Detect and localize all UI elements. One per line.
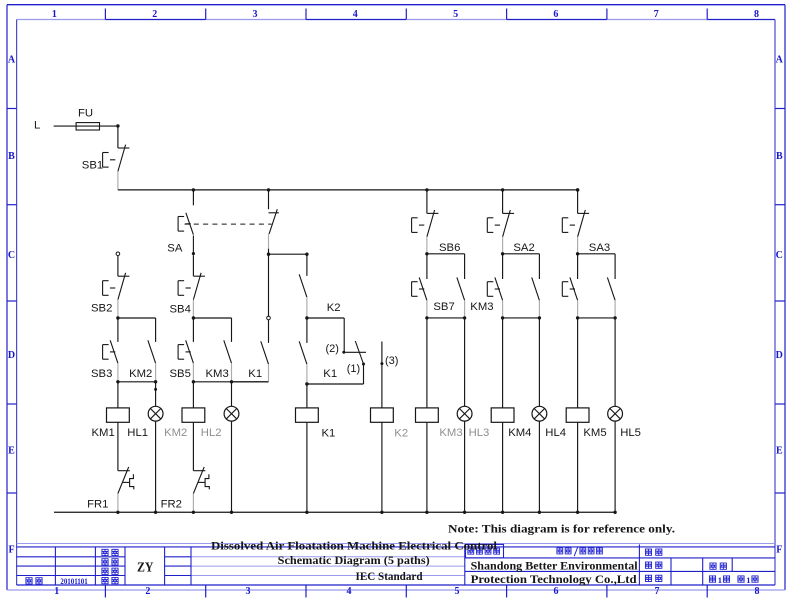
svg-text:KM5: KM5 (583, 427, 606, 439)
svg-text:5: 5 (453, 9, 458, 20)
svg-text:FU: FU (78, 108, 93, 120)
selector switch SA pole 2 NC (269, 209, 279, 254)
svg-text:7: 7 (654, 9, 659, 20)
svg-text:K2: K2 (327, 302, 341, 314)
junction bus col E (267, 188, 270, 191)
svg-text:B: B (776, 151, 783, 162)
svg-text:Schematic Diagram (5 paths): Schematic Diagram (5 paths) (278, 553, 430, 567)
junction bus col SA2 (501, 188, 504, 191)
wire B to HL1 (155, 382, 157, 407)
svg-text:Note: This diagram is for refe: Note: This diagram is for reference only… (448, 522, 675, 536)
junction F top (305, 253, 308, 256)
wire C to SA (192, 190, 194, 205)
label ban-ci/xiu-gai-ci revision (557, 548, 563, 554)
wire (3) branch (381, 342, 383, 408)
label ri-qi date (26, 578, 32, 584)
label she-ji design (102, 549, 108, 555)
svg-text:Dissolved Air Floatation Machi: Dissolved Air Floatation Machine Electri… (211, 538, 498, 552)
wire KM4 coil to bus (502, 422, 504, 512)
coil KM3 (416, 408, 439, 422)
svg-text:SB5: SB5 (170, 368, 191, 380)
pushbutton SB1 NC contact (118, 145, 129, 190)
wire SA3 top (577, 190, 579, 214)
junction bottom bus col B (154, 511, 157, 514)
svg-text:K1: K1 (323, 368, 337, 380)
svg-text:KM3: KM3 (470, 301, 493, 313)
junction group right (463, 316, 466, 319)
wire HL1 to bottom bus (155, 421, 157, 512)
junction SA3 mid (576, 252, 579, 255)
wire (1) down (363, 364, 365, 384)
svg-text:5: 5 (455, 586, 460, 597)
SB2 actuator (103, 281, 116, 296)
left NO actuator under SA2 (487, 282, 500, 297)
wire fuse to node (100, 125, 118, 127)
junction FU output (116, 124, 119, 127)
wire right down (464, 254, 466, 279)
contact SA2 NC (503, 210, 514, 252)
coil KM1 (107, 408, 130, 422)
label wen-jian-bian-hao document number (468, 548, 474, 554)
junction B row3 (154, 380, 157, 383)
SB4 actuator (178, 281, 191, 296)
lamp HL3 (457, 406, 472, 421)
coil KM5 (566, 408, 589, 422)
svg-text:SA3: SA3 (589, 242, 610, 254)
svg-text:KM2: KM2 (129, 368, 152, 380)
wire to lamp (464, 318, 466, 406)
svg-text:1: 1 (746, 575, 750, 585)
junction B extra (154, 388, 157, 391)
wire to coil (426, 318, 428, 408)
label ban-ben version (645, 562, 651, 568)
junction bus col C (192, 188, 195, 191)
svg-text:6: 6 (553, 9, 558, 20)
left NO actuator under SB6 (412, 282, 425, 297)
wire to lamp (538, 318, 540, 406)
svg-text:C: C (776, 250, 783, 261)
wire top bus (118, 189, 578, 191)
junction bottom bus col A (116, 511, 119, 514)
coil K1 (296, 408, 319, 422)
svg-text:KM4: KM4 (508, 427, 531, 439)
SB6 actuator (412, 218, 425, 233)
svg-text:D: D (8, 350, 15, 361)
svg-text:SA2: SA2 (513, 242, 534, 254)
junction F row3 (305, 382, 308, 385)
svg-text:K1: K1 (248, 368, 262, 380)
wire F to K1 contact 2 (306, 318, 308, 343)
lamp HL1 (148, 406, 163, 421)
svg-text:KM3: KM3 (206, 368, 229, 380)
contact KM3 NO (224, 340, 232, 382)
svg-text:(1): (1) (347, 363, 360, 375)
svg-text:E: E (8, 446, 15, 457)
wire left down (502, 254, 504, 279)
SA2 actuator (487, 218, 500, 233)
wire E corner to D (232, 381, 269, 383)
svg-text:7: 7 (655, 586, 660, 597)
svg-text:20101101: 20101101 (60, 577, 87, 586)
pushbutton SB2 NC contact (118, 273, 129, 318)
node ring col A (116, 252, 120, 256)
wire branch C-D (193, 317, 231, 319)
junction bottom bus col L (538, 511, 541, 514)
wire HL5 to bus (614, 421, 616, 512)
label page 1 of 1 (709, 576, 715, 582)
SB3 actuator (103, 345, 116, 360)
node dot col C (192, 252, 195, 255)
svg-text:3: 3 (246, 586, 251, 597)
junction bus col SA3 (576, 188, 579, 191)
junction bottom bus col J (463, 511, 466, 514)
svg-text:HL3: HL3 (469, 427, 490, 439)
svg-text:4: 4 (353, 9, 358, 20)
wire left down (426, 254, 428, 279)
junction bottom bus col I (425, 511, 428, 514)
selector switch SA pole 1 (186, 213, 194, 252)
wire F to K1 coil (306, 384, 308, 408)
svg-text:HL1: HL1 (127, 427, 148, 439)
wire A to KM1 coil (117, 382, 119, 408)
zone numbers top (52, 9, 759, 20)
wire branch to right contact (427, 253, 465, 255)
thermal overload FR2 (193, 467, 209, 512)
svg-text:8: 8 (755, 586, 760, 597)
wire group bottom (503, 317, 540, 319)
junction D row3 (230, 380, 233, 383)
junction group left (425, 316, 428, 319)
wire C to SB4 (192, 255, 194, 276)
wire KM5 coil to bus (577, 422, 579, 512)
junction SB6 mid (425, 252, 428, 255)
svg-text:3: 3 (253, 9, 258, 20)
svg-text:(3): (3) (385, 355, 398, 367)
svg-text:D: D (776, 350, 783, 361)
wire HL3 to bus (464, 421, 466, 512)
junction E (267, 253, 270, 256)
wire branch E-F (269, 253, 307, 255)
junction bottom bus col F (305, 511, 308, 514)
svg-text:8: 8 (754, 9, 759, 20)
svg-text:SB6: SB6 (439, 242, 460, 254)
label zhi-tu draft (102, 559, 108, 565)
wire SB6 top (426, 190, 428, 214)
svg-text:KM1: KM1 (92, 427, 115, 439)
wire bottom bus (54, 511, 615, 513)
svg-text:(2): (2) (326, 343, 339, 355)
junction group right (613, 316, 616, 319)
svg-text:Protection Technology Co.,Ltd: Protection Technology Co.,Ltd (471, 572, 637, 586)
label zhuan-ye specialty (710, 563, 716, 569)
wire branch to right contact (503, 253, 540, 255)
pushbutton SB4 NC contact (193, 273, 205, 318)
wire to coil (577, 318, 579, 408)
coil K2 (371, 408, 394, 422)
wire right down (538, 254, 540, 279)
svg-text:HL2: HL2 (201, 427, 222, 439)
svg-text:B: B (8, 151, 15, 162)
junction A row3 (116, 380, 119, 383)
terminal (1) dot (362, 363, 365, 366)
wire E to K1 contact (268, 320, 270, 343)
wire HL4 to bus (538, 421, 540, 512)
wire F to K2 contact (306, 254, 308, 276)
contact right NO under SA2 (532, 277, 540, 318)
left NO actuator under SA3 (562, 282, 575, 297)
wire K2 coil to bottom bus (381, 422, 383, 512)
node ring col E (267, 316, 271, 320)
wire to lamp (614, 318, 616, 406)
wire KM1 to FR1 (117, 422, 119, 470)
svg-text:FR2: FR2 (161, 499, 182, 511)
wire down to SB1 (117, 126, 119, 148)
changeover contact terminals (2)-(1) (344, 318, 366, 364)
svg-text:F: F (776, 545, 782, 556)
lamp HL2 (224, 406, 239, 421)
SB1 actuator (103, 153, 116, 168)
junction bottom bus col C (192, 511, 195, 514)
svg-text:6: 6 (554, 586, 559, 597)
wire E down (268, 254, 270, 316)
svg-text:SB3: SB3 (91, 368, 112, 380)
svg-text:SB7: SB7 (433, 301, 454, 313)
contact SA3 NC (578, 210, 590, 252)
junction bottom bus col M (576, 511, 579, 514)
wire L to fuse (54, 125, 77, 127)
junction group left (576, 316, 579, 319)
wire C to SB5 (192, 318, 194, 342)
junction bottom bus col H (380, 511, 383, 514)
svg-text:2: 2 (145, 586, 150, 597)
wire A ring to SB2 (117, 256, 119, 277)
wire branch C-D-E lower (193, 381, 268, 383)
contact right NO under SB6 (457, 277, 465, 318)
terminal (3) dot (380, 362, 383, 365)
contact right NO under SA3 (607, 277, 615, 318)
wire HL2 to bottom bus (231, 421, 233, 512)
svg-text:F: F (8, 545, 14, 556)
wire K1 coil to bottom bus (306, 422, 308, 512)
svg-text:K2: K2 (394, 428, 408, 440)
label tu-hao drawing number (645, 549, 651, 555)
thermal overload FR1 (118, 467, 134, 512)
junction bus col SB6 (425, 188, 428, 191)
wire KM3 coil to bus (426, 422, 428, 512)
fuse FU (76, 123, 99, 130)
svg-text:SB2: SB2 (91, 302, 112, 314)
wire branch A-B (118, 317, 156, 319)
junction group right (538, 316, 541, 319)
pushbutton SB5 NO contact (186, 340, 194, 382)
contact K1 NO (second) (299, 341, 307, 384)
wire group bottom (427, 317, 465, 319)
svg-text:KM3: KM3 (439, 427, 462, 439)
contact left NO under SA2 (495, 277, 503, 318)
label jiao-dui check (102, 568, 108, 574)
wire E to SA pole2 (268, 190, 270, 209)
junction group left (501, 316, 504, 319)
SA actuator (178, 217, 191, 232)
contact KM2 NO (148, 340, 156, 382)
coil KM4 (491, 408, 514, 422)
junction C row2 (192, 316, 195, 319)
contact left NO under SB6 (419, 277, 427, 318)
terminal (2) dot (342, 351, 345, 354)
contact K2 NO (299, 274, 307, 318)
wire D to HL2 (231, 382, 233, 407)
svg-text:2: 2 (152, 9, 157, 20)
title block (17, 544, 775, 585)
wire to coil (502, 318, 504, 408)
wire (1) return to F (307, 383, 364, 385)
contact SB6 NC (427, 210, 439, 252)
junction bottom bus col K (501, 511, 504, 514)
svg-text:Shandong Better Environmental: Shandong Better Environmental (471, 559, 639, 573)
wire branch to right contact (578, 253, 616, 255)
svg-text:1: 1 (718, 575, 722, 585)
bus end dot (576, 188, 579, 191)
junction A row2 (116, 316, 119, 319)
SA mechanical link dashed (185, 223, 272, 225)
junction SA2 mid (501, 252, 504, 255)
svg-text:A: A (776, 55, 784, 66)
svg-text:SB1: SB1 (82, 160, 103, 172)
wire D to KM3 contact (231, 318, 233, 342)
svg-text:IEC Standard: IEC Standard (356, 569, 423, 583)
svg-text:1: 1 (52, 9, 57, 20)
wire right down (614, 254, 616, 279)
wire A to SB3 (117, 318, 119, 342)
svg-text:1: 1 (54, 586, 59, 597)
wire branch A-B lower (118, 381, 156, 383)
wire branch F-G (307, 317, 344, 319)
SB5 actuator (178, 345, 191, 360)
svg-text:HL4: HL4 (545, 427, 566, 439)
lamp HL5 (608, 406, 623, 421)
zone letters right (776, 55, 784, 556)
wire group bottom (578, 317, 616, 319)
svg-text:SA: SA (167, 242, 183, 254)
svg-text:ZY: ZY (137, 561, 154, 576)
junction C row3 (192, 380, 195, 383)
zone letters left (8, 55, 16, 556)
zone numbers bottom (54, 586, 759, 597)
svg-text:SB4: SB4 (170, 304, 191, 316)
svg-text:KM2: KM2 (164, 427, 187, 439)
contact K1 NO (first) (261, 341, 269, 382)
wire KM2 to FR2 (192, 422, 194, 470)
svg-text:L: L (34, 120, 40, 132)
SA3 actuator (562, 218, 575, 233)
lamp HL4 (532, 406, 547, 421)
svg-text:C: C (8, 250, 15, 261)
svg-text:HL5: HL5 (620, 427, 641, 439)
wire C to KM2 coil (192, 382, 194, 408)
wire B to KM2 contact (155, 318, 157, 342)
junction bottom bus col D (230, 511, 233, 514)
coil KM2 (182, 408, 205, 422)
wire left down (577, 254, 579, 279)
contact left NO under SA3 (570, 277, 578, 318)
svg-text:K1: K1 (322, 428, 336, 440)
wire SA2 top (502, 190, 504, 214)
bottom bus end dot (613, 511, 616, 514)
pushbutton SB3 NO contact (110, 340, 118, 382)
svg-text:E: E (776, 446, 783, 457)
svg-text:FR1: FR1 (87, 499, 108, 511)
svg-text:A: A (8, 55, 16, 66)
svg-text:4: 4 (347, 586, 352, 597)
label bi-li scale (645, 575, 651, 581)
junction F row2 (305, 316, 308, 319)
label shen-pi approve (102, 578, 108, 584)
